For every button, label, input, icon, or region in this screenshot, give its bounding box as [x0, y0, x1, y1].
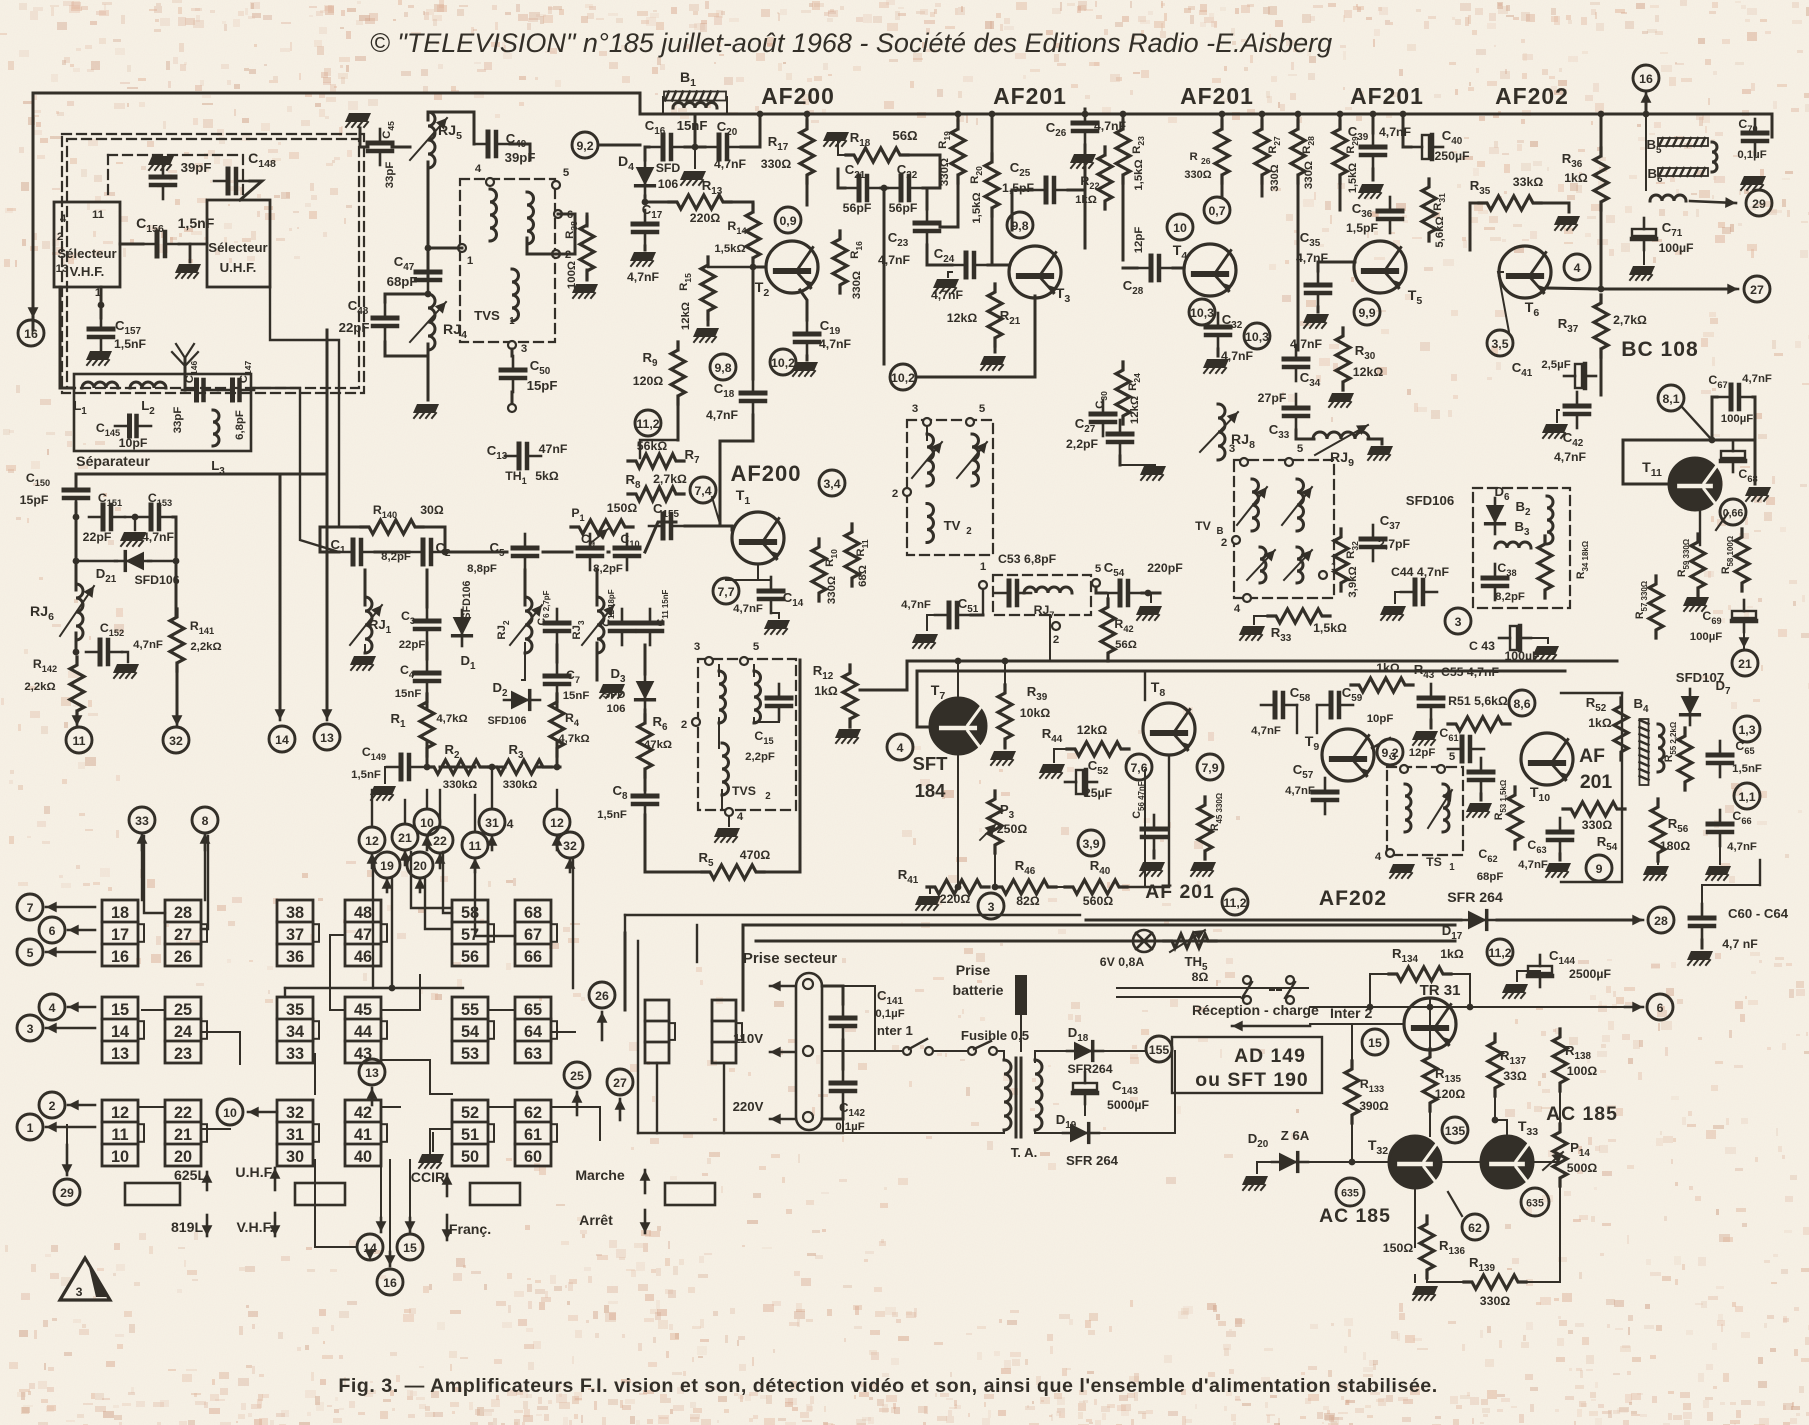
capacitor C148 [214, 169, 250, 193]
svg-text:Sélecteur: Sélecteur [57, 246, 116, 261]
ground R59 [1697, 588, 1700, 594]
connector block 18-16 [102, 900, 138, 966]
wire C28 [1123, 267, 1137, 270]
inductor B2 coil [1547, 496, 1553, 544]
svg-text:68pF: 68pF [387, 274, 418, 289]
node 10,3 b [1244, 323, 1270, 349]
node 3,4 [819, 470, 845, 496]
svg-text:31: 31 [286, 1126, 304, 1144]
svg-text:TR 31: TR 31 [1420, 982, 1461, 999]
svg-text:4,7nF: 4,7nF [1379, 125, 1412, 139]
capacitor C1 [339, 540, 375, 564]
svg-text:635: 635 [1526, 1197, 1544, 1209]
inductor B4 [1658, 724, 1664, 772]
svg-text:TV: TV [1195, 519, 1212, 533]
pin TV2 2 [903, 488, 911, 496]
svg-text:9,2: 9,2 [576, 139, 593, 153]
svg-text:3: 3 [76, 1285, 83, 1299]
svg-text:58: 58 [461, 904, 479, 922]
resistor R58 [1735, 529, 1749, 591]
svg-text:SFD106: SFD106 [134, 573, 179, 587]
capacitor C66 [1708, 810, 1732, 846]
svg-text:4,7nF: 4,7nF [1251, 725, 1281, 737]
inductor RJ4 [428, 294, 435, 350]
capacitor C146 33pF [182, 380, 218, 400]
pin TVB 3 [1240, 458, 1248, 466]
node 10,2 b [890, 364, 916, 390]
svg-text:110V: 110V [733, 1031, 763, 1046]
resistor R34 [1538, 536, 1552, 598]
resistor R51 [1448, 717, 1510, 731]
resistor R28 [1291, 121, 1305, 183]
svg-text:4,7kΩ: 4,7kΩ [558, 733, 589, 745]
capacitor C141 [831, 1004, 855, 1040]
resistor R15 [701, 257, 715, 319]
wire D18 155 [1103, 1050, 1144, 1052]
inductor TVS2 c [722, 743, 729, 795]
svg-text:635: 635 [1341, 1187, 1359, 1199]
wire C23 [923, 188, 927, 209]
svg-text:56Ω: 56Ω [892, 128, 918, 143]
svg-text:27: 27 [174, 926, 192, 944]
svg-text:AF202: AF202 [1319, 887, 1387, 910]
potentiometer P3 [988, 791, 1002, 853]
svg-text:68Ω: 68Ω [857, 565, 869, 587]
capacitor C58 [1261, 693, 1297, 717]
svg-text:V.H.F.: V.H.F. [236, 1219, 273, 1235]
svg-text:32: 32 [286, 1104, 304, 1122]
capacitor C11 [638, 609, 662, 645]
svg-text:47kΩ: 47kΩ [644, 739, 672, 751]
svg-text:220Ω: 220Ω [940, 892, 971, 906]
svg-text:10,2: 10,2 [771, 356, 795, 370]
wire R5 [645, 815, 703, 872]
resistor R43 [1351, 678, 1413, 692]
resistor R7 56k [628, 454, 684, 468]
svg-text:0,7: 0,7 [1208, 204, 1225, 218]
wire C153 right [173, 517, 176, 617]
wire T1 base [685, 526, 732, 530]
node 7,7 [713, 578, 739, 604]
svg-text:TV: TV [944, 518, 961, 533]
svg-text:100µF: 100µF [1721, 413, 1754, 425]
svg-text:28: 28 [1654, 914, 1668, 928]
node 11,2 b [1222, 889, 1248, 915]
capacitor C25 [1032, 178, 1068, 202]
svg-text:1kΩ: 1kΩ [1075, 194, 1097, 206]
svg-text:5: 5 [27, 946, 34, 960]
node 10,3 a [1189, 299, 1215, 325]
svg-text:1,5kΩ: 1,5kΩ [714, 243, 745, 255]
capacitor C71 electrolytic [1632, 218, 1656, 250]
svg-text:10,2: 10,2 [891, 371, 915, 385]
svg-text:106: 106 [658, 177, 679, 191]
wire 9,2 to D4 [600, 144, 640, 147]
svg-text:5: 5 [1449, 751, 1456, 763]
svg-text:C60 - C64: C60 - C64 [1728, 906, 1789, 921]
capacitor C51 [935, 603, 971, 627]
svg-text:16: 16 [1639, 72, 1653, 86]
wire C16 C20 node [645, 146, 649, 149]
svg-text:33kΩ: 33kΩ [1513, 175, 1544, 189]
svg-text:11,2: 11,2 [1488, 946, 1511, 960]
node 4 b [887, 734, 913, 760]
svg-text:1: 1 [27, 1121, 34, 1135]
transformer TA secondary [1035, 1060, 1042, 1130]
resistor R134 [1389, 967, 1451, 981]
svg-text:68pF: 68pF [1477, 871, 1504, 883]
svg-text:61: 61 [524, 1126, 542, 1144]
connector block 28-26 [165, 900, 201, 966]
transformer TA core [1015, 1058, 1018, 1137]
wire psu left verticals [637, 941, 639, 1133]
resistor R5 [702, 865, 764, 879]
svg-text:62: 62 [1468, 1221, 1482, 1235]
svg-text:4: 4 [507, 817, 514, 831]
svg-text:33pF: 33pF [172, 407, 184, 434]
wire C25 [1012, 190, 1032, 230]
svg-text:4,7nF: 4,7nF [1285, 785, 1315, 797]
node 32 c [557, 832, 583, 858]
ground R44 [1039, 764, 1065, 778]
svg-text:10pF: 10pF [119, 436, 148, 450]
selector rect a [125, 1183, 180, 1205]
svg-text:5: 5 [1095, 563, 1102, 575]
capacitor C142 [831, 1069, 855, 1105]
wire mesh f [330, 935, 345, 1010]
inductor RJ7 [1024, 587, 1072, 593]
svg-text:12: 12 [365, 834, 379, 848]
wire R35 [1470, 203, 1480, 250]
transistor T33 [1481, 1136, 1533, 1188]
capacitor C43 electrolytic [1499, 626, 1531, 650]
svg-text:8,2pF: 8,2pF [1495, 591, 1525, 603]
inductor RJ9 [1313, 432, 1369, 439]
svg-text:64: 64 [524, 1023, 542, 1041]
inductor L3 [213, 410, 219, 446]
selector rect d [665, 1183, 715, 1205]
svg-text:500Ω: 500Ω [1567, 1161, 1598, 1175]
ground C63 [1559, 854, 1562, 860]
VHF selector box [54, 202, 120, 287]
svg-text:4: 4 [1375, 851, 1382, 863]
resistor R16 [833, 231, 847, 293]
capacitor C153 [137, 505, 173, 529]
transistor T4 [1184, 244, 1236, 296]
svg-text:10,3: 10,3 [1190, 306, 1214, 320]
capacitor C49 [474, 132, 510, 156]
ground C55 [1430, 720, 1433, 728]
svg-text:4,7nF: 4,7nF [1727, 841, 1757, 853]
resistor R39 [998, 685, 1012, 747]
wire R38 [586, 214, 589, 226]
svg-text:4,7nF: 4,7nF [714, 157, 747, 171]
resistor R20 [985, 154, 999, 216]
inductor TVB b [1297, 479, 1304, 531]
node 15 c [397, 1234, 423, 1260]
svg-text:4: 4 [737, 811, 744, 823]
svg-text:5: 5 [1297, 443, 1304, 455]
wire TV2 [926, 426, 928, 440]
resistor R18 [846, 148, 908, 162]
wire C60 up [1702, 885, 1760, 904]
wire 102 bus [918, 296, 1035, 377]
capacitor C30 [1091, 400, 1115, 436]
node 155 [1146, 1036, 1172, 1062]
resistor R31 [1422, 179, 1436, 241]
capacitor C152 [86, 640, 122, 664]
svg-text:4: 4 [1574, 261, 1581, 275]
transistor T32 [1389, 1136, 1441, 1188]
wire T6 collector to 27 [1547, 288, 1735, 289]
terminal 3 [17, 1015, 43, 1041]
wire sound band [957, 755, 959, 887]
svg-text:1kΩ: 1kΩ [1376, 661, 1400, 675]
wire TR31 col [1429, 998, 1431, 1007]
svg-text:60: 60 [524, 1148, 542, 1166]
wire node stubs [371, 790, 373, 827]
node 31 [479, 809, 505, 835]
ground C24 [933, 279, 959, 293]
wire R135 T32 [1429, 1103, 1431, 1136]
capacitor C55 [1419, 684, 1443, 720]
arrow marche [644, 1210, 647, 1233]
wire R9 [677, 348, 680, 350]
resistor R17 [800, 121, 814, 183]
svg-text:100Ω: 100Ω [1567, 1064, 1598, 1078]
svg-text:1,5kΩ: 1,5kΩ [1313, 621, 1347, 635]
ground R41 [915, 896, 941, 910]
ground C43 [1533, 646, 1559, 660]
svg-text:40: 40 [354, 1148, 372, 1166]
node 11 b [66, 727, 92, 753]
capacitor C3 [415, 607, 439, 643]
wire mesh a [144, 836, 165, 913]
svg-text:330Ω: 330Ω [761, 157, 792, 171]
node 27 [1744, 276, 1770, 302]
svg-text:1,1: 1,1 [1738, 790, 1755, 804]
inductor RJ1 [365, 597, 372, 653]
svg-text:AF200: AF200 [730, 461, 801, 486]
resistor R38 [580, 217, 594, 279]
transistor TR31 [1404, 998, 1456, 1050]
svg-text:18: 18 [111, 904, 129, 922]
mid bus upper [860, 661, 1617, 690]
capacitor C38 [1483, 564, 1507, 600]
pin TS1 3 [1400, 765, 1408, 773]
tvs1 dashed box [460, 179, 555, 342]
svg-text:14: 14 [275, 733, 289, 747]
svg-text:12pF: 12pF [1133, 227, 1145, 254]
wire R133 [1351, 1024, 1353, 1069]
node 9,9 [1354, 299, 1380, 325]
ground C17 [644, 246, 647, 250]
svg-text:AC 185: AC 185 [1319, 1205, 1391, 1227]
wire af201 band bottom [625, 914, 1080, 916]
svg-text:T. A.: T. A. [1011, 1145, 1038, 1160]
svg-text:1,5nF: 1,5nF [1732, 763, 1762, 775]
node 9b [1586, 855, 1612, 881]
svg-text:30: 30 [286, 1148, 304, 1166]
svg-text:10,3: 10,3 [1245, 330, 1269, 344]
capacitor C8 [633, 782, 657, 818]
svg-text:21: 21 [174, 1126, 192, 1144]
svg-text:AD 149: AD 149 [1234, 1045, 1306, 1067]
wire drop 14 [279, 474, 282, 716]
capacitor C7 [545, 662, 569, 698]
wire 35 T6 [1498, 272, 1509, 332]
svg-text:3: 3 [27, 1022, 34, 1036]
node 16 [18, 320, 44, 346]
node 8,1 [1658, 385, 1684, 411]
svg-text:1,3: 1,3 [1738, 723, 1755, 737]
svg-text:10kΩ: 10kΩ [1020, 706, 1051, 720]
ground C60 [1701, 940, 1704, 948]
svg-text:16: 16 [383, 1276, 397, 1290]
svg-text:1,5kΩ: 1,5kΩ [1133, 159, 1145, 190]
ground C144 [1502, 984, 1528, 998]
wire T2 emitter [800, 290, 807, 320]
svg-text:8,8pF: 8,8pF [467, 563, 497, 575]
capacitor C32 [1206, 313, 1230, 349]
capacitor C36 [1378, 197, 1402, 233]
svg-text:29: 29 [1752, 197, 1766, 211]
svg-text:22: 22 [433, 834, 447, 848]
svg-text:12kΩ: 12kΩ [1077, 723, 1108, 737]
svg-text:1,5kΩ: 1,5kΩ [971, 192, 983, 223]
capacitor C26 [1073, 109, 1097, 145]
capacitor C45 [368, 129, 392, 165]
pin TVS2 3 [705, 657, 713, 665]
thermistor TH5 [1164, 934, 1216, 948]
svg-text:38: 38 [286, 904, 304, 922]
diode D18 [1067, 1042, 1103, 1061]
svg-text:15nF: 15nF [677, 118, 708, 133]
inductor L2 [130, 382, 166, 388]
node 1,3 [1734, 716, 1760, 742]
svg-text:4,7 nF: 4,7 nF [1722, 937, 1758, 951]
mains socket [796, 973, 822, 1130]
svg-text:4,7kΩ: 4,7kΩ [436, 713, 467, 725]
svg-text:2,7pF: 2,7pF [1378, 537, 1411, 551]
svg-text:3: 3 [1455, 615, 1462, 629]
inductor RJ2 [525, 597, 532, 653]
pin TVB 1 [1319, 571, 1327, 579]
svg-text:AC 185: AC 185 [1546, 1103, 1618, 1125]
transistor T10 [1521, 733, 1573, 785]
node 15 b [1362, 1029, 1388, 1055]
resistor R57 [1649, 576, 1663, 638]
svg-text:4,7nF: 4,7nF [142, 530, 175, 544]
node 16 c [377, 1269, 403, 1295]
wire R14 [752, 202, 755, 212]
svg-text:2: 2 [49, 1099, 56, 1113]
svg-text:220Ω: 220Ω [690, 211, 721, 225]
tv2 dashed box [907, 420, 993, 555]
node 21 [1732, 650, 1758, 676]
svg-text:42: 42 [354, 1104, 372, 1122]
svg-text:25µF: 25µF [1084, 786, 1113, 800]
wire conn 33 [141, 836, 143, 900]
svg-text:3: 3 [988, 900, 995, 914]
diode D1 [453, 610, 472, 646]
svg-text:0,9: 0,9 [779, 214, 796, 228]
wire TVS2 net [718, 665, 720, 676]
filter B5 [1658, 138, 1708, 146]
resistor R37 [1594, 295, 1608, 357]
svg-text:22pF: 22pF [83, 530, 112, 544]
resistor R6 [638, 715, 652, 777]
capacitor C14 [759, 577, 783, 613]
transistor T2 [766, 241, 818, 293]
capacitor C23 [915, 209, 939, 245]
svg-text:2,2kΩ: 2,2kΩ [190, 641, 221, 653]
svg-text:3: 3 [912, 403, 918, 415]
svg-text:9,8: 9,8 [1011, 219, 1028, 233]
svg-text:330Ω: 330Ω [939, 158, 951, 186]
resistor R24 [1116, 362, 1130, 424]
resistor R21 [988, 284, 1002, 346]
wire RJ5 net [360, 128, 368, 147]
connector block 65-63 [515, 997, 551, 1063]
connector block 38-36 [277, 900, 313, 966]
resistor R35 [1479, 196, 1541, 210]
svg-text:33: 33 [286, 1045, 304, 1063]
resistor R135 [1423, 1049, 1437, 1111]
svg-text:625L: 625L [174, 1167, 207, 1183]
svg-text:3,5: 3,5 [1491, 337, 1508, 351]
svg-text:V.H.F.: V.H.F. [70, 264, 105, 279]
wire top rail left [76, 473, 327, 476]
psu frame top [743, 924, 1455, 927]
svg-text:4,7nF: 4,7nF [133, 639, 163, 651]
svg-text:28: 28 [174, 904, 192, 922]
wire T11 base net [1623, 440, 1669, 484]
svg-text:33: 33 [135, 814, 149, 828]
svg-text:2: 2 [1053, 634, 1059, 646]
svg-text:330Ω: 330Ω [826, 576, 838, 604]
svg-text:37: 37 [286, 926, 304, 944]
svg-text:15: 15 [111, 1001, 129, 1019]
pin TVB 5 [1285, 458, 1293, 466]
pin 5 [552, 181, 560, 189]
resistor R137 [1488, 1034, 1502, 1096]
resistor R42 [1101, 599, 1115, 661]
wire C21 C22 [838, 169, 845, 188]
node 29 [1746, 190, 1772, 216]
capacitor C19 [795, 320, 819, 356]
svg-text:54: 54 [461, 1023, 479, 1041]
grounds right [1643, 866, 1669, 880]
diode D4 [636, 160, 655, 196]
capacitor C24 [952, 253, 988, 277]
arrow mid [770, 1051, 795, 1054]
wire t8 bias [1144, 671, 1146, 700]
svg-text:11,2: 11,2 [1223, 896, 1246, 910]
ground R33 [1239, 626, 1265, 640]
capacitor C157 [89, 315, 113, 351]
svg-text:2,2pF: 2,2pF [1066, 437, 1099, 451]
diode D3 [636, 674, 655, 710]
diode D20 [1272, 1153, 1308, 1172]
svg-text:4,7nF: 4,7nF [819, 337, 852, 351]
svg-text:0,1µF: 0,1µF [835, 1121, 864, 1133]
capacitor C37 [1361, 525, 1385, 561]
wire C24 T3 [988, 264, 1009, 267]
inductor L1 [82, 382, 118, 388]
wire C148 to UHF [240, 181, 262, 200]
svg-text:13: 13 [365, 1066, 379, 1080]
